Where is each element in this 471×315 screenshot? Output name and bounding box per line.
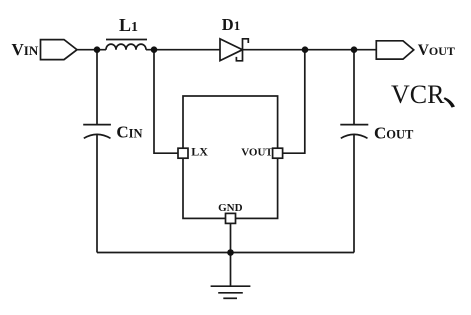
capacitor COUT top plate (340, 124, 368, 126)
svg-text:VOUT: VOUT (241, 147, 273, 159)
wire left branch lower (96, 134, 98, 252)
wire inductor to diode (146, 49, 220, 51)
node junction dot at VOUT pin branch (302, 46, 309, 53)
wire right branch lower (353, 134, 355, 252)
inductor L1 (106, 44, 146, 50)
wire LX branch (154, 50, 178, 154)
capacitor COUT curved plate (341, 134, 368, 138)
pin VOUT square (273, 148, 283, 158)
wire VOUT pin branch (283, 50, 305, 154)
node junction dot on ground rail (227, 249, 234, 256)
svg-text:CIN: CIN (116, 123, 142, 142)
capacitor CIN top plate (83, 124, 111, 126)
svg-text:LX: LX (191, 145, 208, 159)
ideographic comma after VCR (444, 97, 455, 107)
node junction dot at VIN (94, 46, 101, 53)
pin GND square (226, 213, 236, 223)
output tag VOUT (376, 41, 413, 59)
node junction dot at COUT branch (351, 46, 358, 53)
pin LX square (178, 148, 188, 158)
capacitor CIN curved plate (84, 134, 111, 138)
wire VIN to inductor (77, 49, 106, 51)
svg-text:COUT: COUT (374, 123, 414, 142)
svg-text:VOUT: VOUT (418, 42, 455, 59)
ground (211, 285, 251, 287)
wire left branch upper (96, 50, 98, 125)
svg-text:D1: D1 (222, 15, 240, 34)
wire bottom rail (97, 252, 354, 254)
node junction dot after L1 (151, 46, 158, 53)
inductor L1 overline (106, 39, 147, 41)
wire diode to VOUT tag (243, 49, 377, 51)
wire GND pin to rail (230, 223, 232, 252)
diode D1 triangle (220, 39, 243, 61)
op-amp U1 IC body (183, 96, 278, 218)
svg-text:L1: L1 (119, 15, 138, 35)
svg-text:VCR: VCR (391, 80, 445, 109)
wire rail to ground (230, 253, 232, 286)
diode D1 schottky cathode bar (236, 39, 248, 61)
wire right branch upper (353, 50, 355, 125)
svg-text:GND: GND (218, 202, 243, 214)
input tag VIN (41, 40, 78, 60)
svg-text:VIN: VIN (12, 40, 39, 59)
